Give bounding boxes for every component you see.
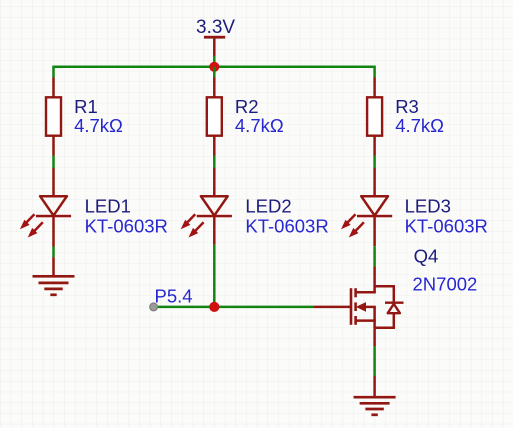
net label P5.4 — [155, 285, 193, 306]
wire rail to R1 — [52, 66, 55, 78]
diode LED2 cathode bar — [197, 215, 232, 218]
resistor R2 pin 1 — [213, 78, 216, 99]
wire rail to R2 — [213, 67, 216, 78]
resistor R3 pin 1 — [373, 78, 376, 99]
svg-text:4.7kΩ: 4.7kΩ — [395, 115, 444, 136]
diode LED3 value label — [405, 216, 488, 237]
diode LED3 pin cathode — [373, 216, 376, 246]
transistor Q4 channel segments — [354, 288, 357, 325]
resistor R3 body — [367, 97, 382, 135]
diode LED1 triangle — [40, 196, 67, 215]
transistor Q4 drain connection — [356, 291, 376, 294]
resistor R2 pin 2 — [213, 136, 216, 156]
diode LED2 emission arrow 1 — [181, 214, 196, 229]
svg-text:2N7002: 2N7002 — [413, 273, 478, 294]
transistor Q4 body diode top lead — [375, 285, 394, 288]
svg-text:KT-0603R: KT-0603R — [245, 216, 328, 237]
transistor Q4 source arrow — [356, 302, 376, 312]
svg-text:3.3V: 3.3V — [196, 17, 235, 38]
diode LED1 cathode bar — [36, 215, 71, 218]
svg-text:Q4: Q4 — [414, 246, 439, 267]
wire top rail — [54, 66, 375, 69]
wire LED2 to P5.4 junction — [213, 245, 216, 307]
diode LED2 name label — [245, 196, 291, 217]
svg-text:R3: R3 — [395, 96, 419, 117]
wire LED1 to ground — [52, 247, 55, 258]
svg-text:KT-0603R: KT-0603R — [85, 216, 168, 237]
resistor R2 name label — [235, 96, 259, 117]
wire R3 to LED3 — [373, 156, 376, 169]
svg-text:4.7kΩ: 4.7kΩ — [235, 115, 284, 136]
svg-text:4.7kΩ: 4.7kΩ — [74, 115, 123, 136]
ground GND2 pin — [373, 376, 376, 397]
diode LED2 triangle — [201, 196, 228, 215]
transistor Q4 drain pin — [373, 266, 376, 292]
diode LED2 value label — [245, 216, 328, 237]
resistor R3 name label — [395, 96, 419, 117]
resistor R2 value label — [235, 115, 284, 136]
diode LED2 pin anode — [213, 168, 216, 197]
diode LED1 pin cathode — [52, 216, 55, 247]
transistor Q4 gate lead — [313, 306, 351, 309]
diode LED1 pin anode — [52, 168, 55, 197]
diode LED1 name label — [85, 196, 131, 217]
wire R2 to LED2 — [213, 156, 216, 169]
junction at 3.3V rail — [209, 62, 219, 72]
resistor R2 body — [207, 97, 222, 135]
diode LED3 pin anode — [373, 168, 376, 197]
transistor Q4 gate line — [350, 288, 353, 325]
svg-text:R1: R1 — [74, 96, 98, 117]
wire R1 to LED1 — [52, 156, 55, 169]
wire LED3 to Q4 drain — [373, 246, 376, 266]
diode LED1 value label — [85, 216, 168, 237]
wire P5.4 stub — [154, 306, 215, 309]
resistor R1 pin 2 — [52, 136, 55, 156]
svg-text:LED2: LED2 — [245, 196, 291, 217]
power flag 3.3V label — [196, 17, 235, 38]
transistor Q4 value label — [413, 273, 478, 294]
wire 3.3V to junction — [213, 56, 216, 67]
power flag 3.3V pin — [213, 38, 216, 56]
diode LED3 emission arrow 2 — [349, 222, 364, 237]
svg-text:P5.4: P5.4 — [155, 285, 193, 306]
wire rail to R3 — [373, 66, 376, 78]
resistor R1 body — [46, 97, 61, 135]
resistor R3 pin 2 — [373, 136, 376, 156]
ground GND2 symbol — [354, 397, 396, 415]
transistor Q4 name label — [414, 246, 439, 267]
resistor R1 pin 1 — [52, 78, 55, 99]
diode LED1 emission arrow 2 — [28, 222, 43, 237]
ground GND1 symbol — [33, 276, 75, 295]
diode LED3 cathode bar — [357, 215, 392, 218]
svg-text:R2: R2 — [235, 96, 259, 117]
diode LED3 triangle — [361, 196, 388, 215]
wire Q4 to ground — [373, 346, 376, 376]
transistor Q4 source vertical — [373, 307, 376, 329]
diode LED3 emission arrow 1 — [341, 214, 356, 229]
ground GND1 pin — [52, 257, 55, 276]
svg-text:KT-0603R: KT-0603R — [405, 216, 488, 237]
svg-text:LED3: LED3 — [405, 196, 451, 217]
transistor Q4 source connection — [356, 319, 376, 322]
svg-text:LED1: LED1 — [85, 196, 131, 217]
power flag 3.3V bar — [204, 36, 225, 39]
resistor R1 value label — [74, 115, 123, 136]
resistor R3 value label — [395, 115, 444, 136]
diode LED2 emission arrow 2 — [189, 222, 204, 237]
transistor Q4 source pin — [373, 329, 376, 346]
transistor Q4 body diode anode wire — [393, 313, 396, 329]
diode LED2 pin cathode — [213, 216, 216, 245]
transistor Q4 body diode triangle — [388, 304, 400, 313]
wire junction to Q4 gate — [214, 306, 313, 309]
transistor Q4 body diode cathode bar — [385, 302, 404, 304]
diode LED3 name label — [405, 196, 451, 217]
node P5.4 open end dot — [150, 303, 158, 311]
junction at P5.4 — [209, 302, 219, 312]
transistor Q4 body diode cathode wire — [393, 285, 396, 302]
transistor Q4 body diode bottom lead — [375, 326, 395, 329]
diode LED1 emission arrow 1 — [20, 214, 35, 229]
resistor R1 name label — [74, 96, 98, 117]
